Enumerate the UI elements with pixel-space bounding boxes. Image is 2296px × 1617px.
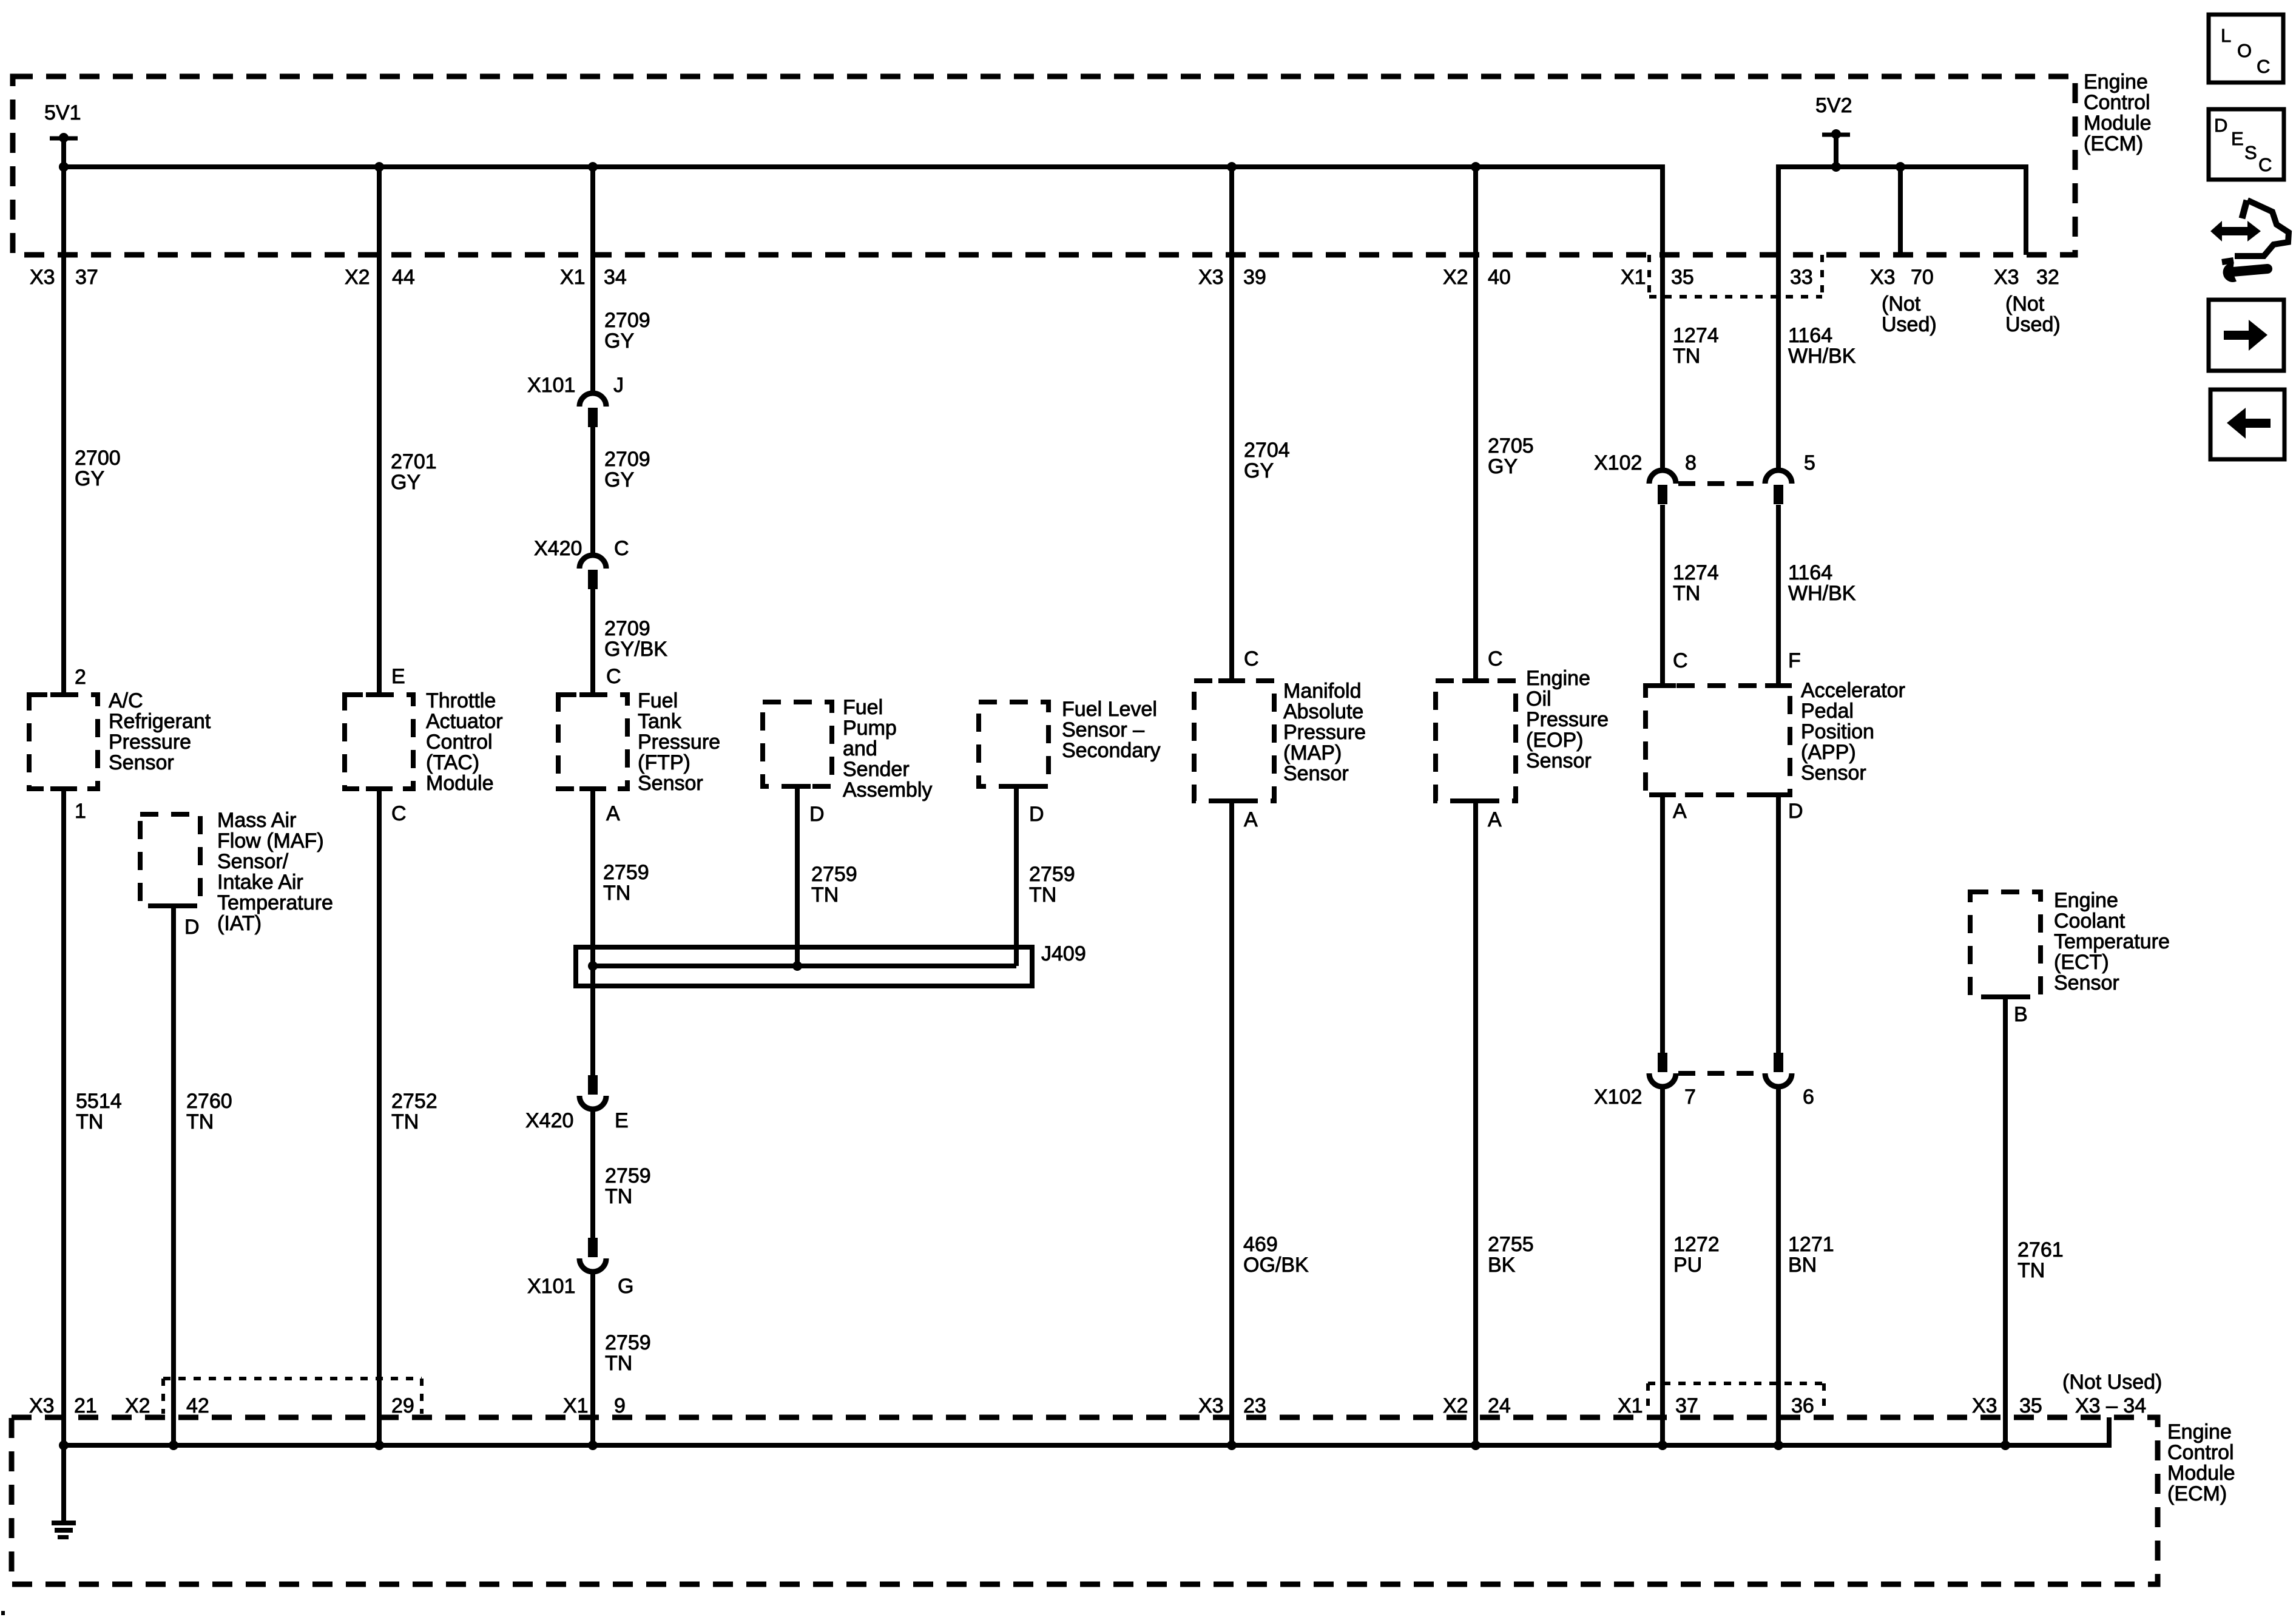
svg-text:Control: Control	[2167, 1441, 2234, 1464]
connector X102 top tie	[1678, 481, 1763, 486]
node 5V1 bar junction dot	[59, 133, 69, 143]
svg-text:X1: X1	[560, 266, 586, 289]
svg-text:37: 37	[75, 266, 98, 289]
svg-text:(TAC): (TAC)	[426, 751, 479, 774]
svg-text:Sensor: Sensor	[1801, 761, 1866, 785]
svg-text:X2: X2	[1443, 1394, 1468, 1417]
svg-text:Sensor: Sensor	[109, 751, 174, 774]
junction dot bus/wire2700	[59, 162, 69, 172]
svg-text:GY: GY	[604, 468, 634, 491]
svg-text:1164: 1164	[1788, 324, 1832, 347]
svg-text:J: J	[613, 374, 624, 397]
svg-text:C: C	[2258, 154, 2272, 175]
wire 1271 BN (APP pin D to X102-6)	[1776, 795, 1781, 1053]
svg-text:Secondary: Secondary	[1062, 739, 1161, 762]
svg-text:TN: TN	[1673, 345, 1700, 368]
svg-text:C: C	[606, 665, 621, 688]
wire 2759 TN (X101-G to X1-9)	[590, 1272, 595, 1445]
svg-text:(ECT): (ECT)	[2054, 951, 2109, 974]
connector X102 pin 6	[1765, 1073, 1792, 1087]
svg-text:X3: X3	[1198, 266, 1224, 289]
svg-text:GY: GY	[391, 471, 420, 494]
svg-text:TN: TN	[605, 1185, 632, 1208]
svg-text:2701: 2701	[391, 450, 437, 473]
svg-text:32: 32	[2036, 266, 2059, 289]
svg-text:Engine: Engine	[2084, 70, 2148, 93]
svg-text:BN: BN	[1788, 1254, 1817, 1277]
wire 1164 WH/BK (X102-5 to APP pin F)	[1776, 505, 1781, 686]
svg-text:Sensor: Sensor	[1526, 749, 1592, 772]
svg-text:Engine: Engine	[1526, 667, 1590, 690]
wire 1271 BN (X102-6 to 36)	[1776, 1087, 1781, 1445]
Engine Oil Pressure EOP Sensor box	[1436, 681, 1516, 801]
svg-text:24: 24	[1488, 1394, 1511, 1417]
Fuel Pump and Sender Assembly box	[763, 702, 832, 786]
svg-text:Sensor: Sensor	[2054, 971, 2119, 994]
svg-text:36: 36	[1791, 1394, 1814, 1417]
svg-text:2709: 2709	[604, 309, 650, 332]
svg-text:X1: X1	[1618, 1394, 1643, 1417]
svg-text:Sensor: Sensor	[638, 772, 703, 795]
svg-text:X3: X3	[30, 266, 55, 289]
junction dot 5V2 at bus	[1831, 162, 1841, 172]
svg-text:40: 40	[1488, 266, 1511, 289]
svg-text:(Not: (Not	[1882, 292, 1921, 316]
svg-text:29: 29	[391, 1394, 414, 1417]
svg-text:5: 5	[1804, 451, 1815, 474]
svg-text:X2: X2	[345, 266, 370, 289]
junction dot bottom bus wire 1271	[1774, 1440, 1783, 1450]
svg-text:TN: TN	[1673, 582, 1700, 605]
svg-text:TN: TN	[603, 882, 630, 905]
junction dot J409 fuel pump wire	[792, 961, 802, 971]
svg-text:Module: Module	[426, 772, 494, 795]
wire 5V1 stem	[61, 138, 66, 167]
connector X420 pin C	[579, 555, 606, 569]
svg-text:(ECM): (ECM)	[2167, 1482, 2227, 1505]
svg-text:2759: 2759	[605, 1164, 651, 1187]
page period mark	[1, 1611, 5, 1615]
svg-text:D: D	[184, 916, 200, 939]
svg-text:Actuator: Actuator	[426, 710, 503, 733]
connector X420 pin E	[579, 1096, 606, 1109]
svg-text:2704: 2704	[1244, 439, 1290, 462]
svg-text:F: F	[1788, 649, 1801, 672]
junction dot 5V1 at bus	[59, 162, 69, 172]
svg-text:2755: 2755	[1488, 1233, 1534, 1256]
svg-text:E: E	[615, 1109, 629, 1132]
svg-text:Used): Used)	[2005, 313, 2061, 336]
splice J409 box	[576, 947, 1032, 986]
svg-text:Sender: Sender	[843, 758, 910, 781]
svg-text:2761: 2761	[2017, 1238, 2064, 1261]
svg-text:Mass Air: Mass Air	[217, 809, 296, 832]
svg-text:Pump: Pump	[843, 717, 897, 740]
wire 2759 TN (fuel level D to J409)	[1014, 786, 1019, 966]
svg-text:5V2: 5V2	[1815, 94, 1852, 117]
icon forward arrow box	[2209, 300, 2284, 371]
svg-text:X1: X1	[563, 1394, 589, 1417]
svg-text:OG/BK: OG/BK	[1243, 1254, 1309, 1277]
svg-text:Pressure: Pressure	[1526, 708, 1609, 731]
svg-text:S: S	[2244, 142, 2257, 163]
svg-text:1274: 1274	[1673, 324, 1719, 347]
svg-text:C: C	[1488, 647, 1503, 670]
svg-text:D: D	[2214, 115, 2227, 136]
icon DESC box	[2209, 109, 2284, 180]
svg-text:Control: Control	[426, 731, 493, 754]
svg-text:2760: 2760	[186, 1090, 232, 1113]
svg-text:(Not Used): (Not Used)	[2062, 1371, 2162, 1394]
Fuel Level Sensor Secondary box	[979, 702, 1048, 786]
svg-text:GY: GY	[1488, 455, 1518, 478]
svg-text:C: C	[1673, 649, 1688, 672]
svg-text:X420: X420	[525, 1109, 573, 1132]
svg-text:X101: X101	[527, 1275, 575, 1298]
svg-text:(IAT): (IAT)	[217, 912, 262, 935]
node 5V2 bar junction dot	[1831, 129, 1841, 139]
wire 1272 PU (APP pin A to X102-7)	[1660, 795, 1665, 1053]
junction dot bus/wire2705	[1471, 162, 1481, 172]
svg-text:Used): Used)	[1882, 313, 1937, 336]
svg-text:Pedal: Pedal	[1801, 700, 1854, 723]
wire 5V1 bus	[64, 164, 1665, 169]
splice J409 bus	[593, 964, 1016, 968]
svg-text:X3: X3	[1972, 1394, 1997, 1417]
svg-text:35: 35	[1671, 266, 1694, 289]
junction dot bottom bus wire 2761	[2001, 1440, 2010, 1450]
svg-text:Intake Air: Intake Air	[217, 871, 303, 894]
svg-text:Temperature: Temperature	[217, 891, 333, 914]
svg-text:Engine: Engine	[2054, 889, 2118, 912]
svg-text:1274: 1274	[1673, 561, 1719, 584]
wire ground bus (ECM low reference)	[64, 1443, 2112, 1448]
junction dot bottom bus wire 2759	[588, 1440, 598, 1450]
svg-text:Pressure: Pressure	[109, 731, 191, 754]
wire 469 OG/BK (MAP pin A to X3-23)	[1229, 801, 1234, 1445]
svg-text:X1: X1	[1621, 266, 1646, 289]
svg-text:GY: GY	[1244, 459, 1274, 482]
svg-text:9: 9	[614, 1394, 626, 1417]
svg-text:Assembly: Assembly	[843, 778, 932, 802]
svg-text:Pressure: Pressure	[1283, 721, 1366, 744]
svg-text:(ECM): (ECM)	[2084, 132, 2143, 155]
wire 2700 GY (X3-37 to A/C sensor pin 2)	[61, 167, 66, 695]
svg-text:J409: J409	[1041, 942, 1086, 965]
junction dot J409 FTP wire	[588, 961, 598, 971]
wire 2759 TN (FTP pin A to splice J409)	[590, 789, 595, 1076]
wire 2759 TN (fuel pump D to J409)	[795, 786, 800, 966]
connector X101 pin G	[579, 1258, 606, 1272]
junction dot bottom bus wire 469	[1227, 1440, 1237, 1450]
svg-text:X3 – 34: X3 – 34	[2075, 1394, 2146, 1417]
svg-text:Sensor: Sensor	[1283, 762, 1349, 785]
connector dotted box pins 37-36	[1648, 1382, 1824, 1385]
wire 2752 TN (TAC pin C to X2-29)	[377, 789, 382, 1445]
wire 2709 GY (X1-34 to X101-J)	[590, 167, 595, 393]
node 5V1 T-bar	[50, 137, 78, 141]
svg-text:Fuel Level: Fuel Level	[1062, 698, 1157, 721]
svg-text:TN: TN	[1029, 883, 1056, 906]
ground symbol	[52, 1521, 76, 1525]
svg-text:O: O	[2237, 40, 2252, 61]
svg-text:5514: 5514	[76, 1090, 122, 1113]
connector X102 pin 7	[1649, 1073, 1676, 1087]
svg-text:X3: X3	[1994, 266, 2019, 289]
connector X102 pin 5	[1765, 470, 1792, 484]
svg-text:A/C: A/C	[109, 689, 143, 712]
svg-text:E: E	[391, 665, 405, 688]
svg-text:Accelerator: Accelerator	[1801, 679, 1905, 702]
svg-text:G: G	[618, 1275, 633, 1298]
Engine Coolant Temperature ECT Sensor box	[1970, 892, 2041, 997]
icon LOC box	[2209, 15, 2283, 83]
junction dot bottom bus wire 1272	[1658, 1440, 1667, 1450]
Manifold Absolute Pressure MAP Sensor box	[1194, 681, 1274, 801]
svg-text:A: A	[1673, 800, 1687, 823]
svg-text:D: D	[809, 803, 825, 826]
junction dot X3-70 at 5V2 bus	[1896, 162, 1905, 172]
wire stub X3-34	[2107, 1417, 2112, 1445]
svg-text:D: D	[1029, 803, 1044, 826]
svg-text:8: 8	[1685, 451, 1697, 474]
svg-text:1272: 1272	[1673, 1233, 1720, 1256]
svg-text:Sensor/: Sensor/	[217, 850, 289, 873]
connector X102 pin 8	[1649, 470, 1676, 484]
svg-text:C: C	[614, 537, 629, 560]
svg-text:469: 469	[1243, 1233, 1278, 1256]
svg-text:5V1: 5V1	[44, 101, 81, 124]
svg-text:Flow (MAF): Flow (MAF)	[217, 829, 324, 852]
svg-text:(Not: (Not	[2005, 292, 2045, 316]
svg-text:X3: X3	[29, 1394, 55, 1417]
svg-text:35: 35	[2019, 1394, 2042, 1417]
svg-text:Control: Control	[2084, 91, 2150, 114]
ECM top dashed box (Engine Control Module)	[13, 76, 2075, 255]
svg-text:2759: 2759	[603, 861, 649, 884]
icon vehicle outline	[2235, 200, 2289, 256]
wire 5V2 stem	[1834, 135, 1838, 167]
connector X102 bottom tie	[1678, 1071, 1763, 1076]
svg-text:TN: TN	[186, 1110, 214, 1133]
svg-text:2752: 2752	[391, 1090, 437, 1113]
wire 2705 GY (X2-40 to EOP sensor pin C)	[1473, 167, 1478, 681]
svg-text:WH/BK: WH/BK	[1788, 345, 1856, 368]
wire 1274 TN (X1-35 to X102-8)	[1660, 167, 1665, 470]
svg-text:Tank: Tank	[638, 710, 682, 733]
Mass Air Flow MAF/IAT Sensor box	[140, 814, 200, 906]
svg-text:A: A	[1244, 808, 1258, 831]
svg-text:Fuel: Fuel	[638, 689, 678, 712]
svg-text:23: 23	[1243, 1394, 1266, 1417]
svg-text:(APP): (APP)	[1801, 741, 1856, 764]
svg-text:Module: Module	[2084, 112, 2152, 135]
svg-text:C: C	[1244, 647, 1259, 670]
junction dot bus/wire2704	[1227, 162, 1237, 172]
svg-text:GY/BK: GY/BK	[604, 638, 667, 661]
node 5V2 T-bar	[1822, 133, 1850, 137]
junction dot bottom bus wire 5514	[59, 1440, 69, 1450]
svg-text:2700: 2700	[75, 447, 121, 470]
svg-text:Sensor –: Sensor –	[1062, 718, 1144, 741]
svg-text:TN: TN	[391, 1110, 419, 1133]
connector dotted box pins 35-33	[1647, 255, 1651, 297]
svg-text:44: 44	[392, 266, 415, 289]
svg-text:D: D	[1788, 800, 1803, 823]
wire 1164 WH/BK (33 to X102-5)	[1776, 167, 1781, 470]
svg-text:C: C	[2257, 56, 2270, 77]
svg-text:B: B	[2014, 1003, 2028, 1026]
svg-text:PU: PU	[1673, 1254, 1702, 1277]
svg-text:2759: 2759	[811, 863, 857, 886]
svg-text:GY: GY	[75, 467, 104, 490]
svg-text:34: 34	[604, 266, 627, 289]
svg-text:1: 1	[75, 800, 86, 823]
svg-text:2759: 2759	[605, 1331, 651, 1354]
svg-text:Pressure: Pressure	[638, 731, 720, 754]
svg-text:Absolute: Absolute	[1283, 700, 1363, 723]
svg-text:TN: TN	[76, 1110, 103, 1133]
icon wrench	[2226, 266, 2235, 279]
svg-text:33: 33	[1790, 266, 1813, 289]
svg-text:X420: X420	[534, 537, 582, 560]
junction dot bus/wire2709	[588, 162, 598, 172]
svg-text:X3: X3	[1870, 266, 1896, 289]
wire 2761 TN (ECT pin B to X3-35)	[2003, 997, 2008, 1445]
svg-text:L: L	[2221, 25, 2231, 46]
wire 1274 TN (X102-8 to APP pin C)	[1660, 505, 1665, 686]
wire stub X3-70 (Not Used)	[1898, 167, 1903, 255]
svg-text:Coolant: Coolant	[2054, 910, 2125, 933]
junction dot bottom bus wire 2760	[169, 1440, 178, 1450]
wire 2759 TN (J409 to X420-E)	[590, 986, 595, 1076]
svg-text:2709: 2709	[604, 448, 650, 471]
svg-text:2: 2	[75, 666, 86, 689]
Accelerator Pedal Position APP Sensor box	[1646, 686, 1790, 795]
svg-text:Module: Module	[2167, 1462, 2235, 1485]
svg-text:BK: BK	[1488, 1254, 1516, 1277]
icon vehicle double arrow	[2210, 221, 2261, 241]
connector X101 pin J	[579, 393, 606, 407]
svg-text:39: 39	[1243, 266, 1266, 289]
wire 2709 GY/BK (X420-C to FTP sensor pin C)	[590, 589, 595, 695]
svg-text:70: 70	[1911, 266, 1934, 289]
wire 2709 GY (X101-J to X420-C)	[590, 427, 595, 555]
svg-text:A: A	[606, 802, 620, 825]
connector dotted box pins 42-29	[163, 1377, 422, 1380]
svg-text:1271: 1271	[1788, 1233, 1834, 1256]
svg-text:Manifold: Manifold	[1283, 680, 1362, 703]
svg-text:(MAP): (MAP)	[1283, 741, 1342, 765]
svg-text:and: and	[843, 737, 877, 760]
svg-text:42: 42	[186, 1394, 209, 1417]
svg-text:WH/BK: WH/BK	[1788, 582, 1856, 605]
wire 2701 GY (X2-44 to TAC module pin E)	[377, 167, 382, 695]
svg-text:2705: 2705	[1488, 434, 1534, 457]
svg-text:1164: 1164	[1788, 561, 1832, 584]
svg-text:(EOP): (EOP)	[1526, 729, 1583, 752]
svg-text:7: 7	[1684, 1085, 1696, 1109]
svg-text:X2: X2	[125, 1394, 150, 1417]
svg-text:Refrigerant: Refrigerant	[109, 710, 211, 733]
wire 2760 TN (MAF pin D to X2-42)	[171, 906, 176, 1445]
wire 5V2 bus	[1776, 164, 2028, 169]
svg-text:GY: GY	[604, 329, 634, 353]
Throttle Actuator Control TAC Module box	[345, 695, 413, 789]
svg-text:X3: X3	[1198, 1394, 1224, 1417]
svg-text:TN: TN	[605, 1352, 632, 1375]
wire 5514 TN (A/C sensor pin 1 to X3-21)	[61, 789, 66, 1445]
svg-text:X102: X102	[1594, 1085, 1642, 1109]
wire stub X3-32 (Not Used)	[2024, 167, 2028, 255]
icon back arrow box	[2210, 390, 2284, 459]
svg-text:Oil: Oil	[1526, 687, 1551, 711]
wire 2704 GY (X3-39 to MAP sensor pin C)	[1229, 167, 1234, 681]
svg-text:Fuel: Fuel	[843, 696, 883, 719]
ECM bottom dashed box (Engine Control Module)	[12, 1417, 2158, 1584]
wire 2755 BK (EOP pin A to X2-24)	[1473, 801, 1478, 1445]
svg-text:2709: 2709	[604, 617, 650, 640]
svg-text:C: C	[391, 802, 407, 825]
svg-text:2759: 2759	[1029, 863, 1075, 886]
svg-text:37: 37	[1675, 1394, 1698, 1417]
junction dot bottom bus wire 2752	[374, 1440, 384, 1450]
svg-text:6: 6	[1803, 1085, 1814, 1109]
svg-text:X102: X102	[1594, 451, 1642, 474]
svg-text:A: A	[1488, 808, 1502, 831]
svg-text:Engine: Engine	[2167, 1420, 2232, 1443]
svg-text:(FTP): (FTP)	[638, 751, 690, 774]
junction dot bus/wire2701	[374, 162, 384, 172]
junction dot bottom bus wire 2755	[1471, 1440, 1481, 1450]
wire to ground	[61, 1445, 66, 1522]
Fuel Tank Pressure FTP Sensor box	[558, 695, 627, 789]
wire 2759 TN (X420-E to X101-G)	[590, 1109, 595, 1238]
svg-text:Throttle: Throttle	[426, 689, 496, 712]
svg-text:21: 21	[74, 1394, 97, 1417]
A/C Refrigerant Pressure Sensor box	[29, 695, 98, 789]
svg-text:TN: TN	[811, 883, 839, 906]
svg-text:Temperature: Temperature	[2054, 930, 2170, 953]
svg-text:Position: Position	[1801, 720, 1874, 743]
wire 1272 PU (X102-7 to X1-37)	[1660, 1087, 1665, 1445]
svg-text:TN: TN	[2017, 1259, 2045, 1282]
svg-text:E: E	[2231, 128, 2244, 149]
svg-text:X2: X2	[1443, 266, 1468, 289]
svg-text:X101: X101	[527, 374, 575, 397]
